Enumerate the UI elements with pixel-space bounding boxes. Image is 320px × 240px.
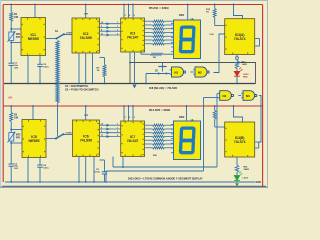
svg-text:S2 = PUSH-TO-ON SWITCH: S2 = PUSH-TO-ON SWITCH [65,88,99,92]
wire VR1 bottom to IC1 pin2-6 [10,41,12,43]
wire IC6 pin6 gnd [78,157,80,183]
wire IC6 pin7 gnd [85,157,87,183]
ground rail [5,181,256,183]
svg-text:16V: 16V [14,67,18,69]
capacitor C1 [9,62,14,64]
svg-text:NE555: NE555 [28,37,39,41]
svg-text:74LS74: 74LS74 [234,140,246,144]
resistor R1 [10,12,13,22]
svg-text:5: 5 [134,15,135,17]
wire VR1 node to IC1 pin7 [11,28,21,30]
wire LED1 to ground bus [236,76,238,83]
timer IC5 NE555 [22,120,46,158]
wire rail2 to IC5 pin8 [32,106,34,120]
wire IC2 pin6 gnd [78,53,80,84]
svg-text:7: 7 [117,22,118,24]
svg-text:N4: N4 [223,94,227,98]
resistor R3 [100,57,105,59]
flip-flop IC4B 74LS74 [225,122,255,157]
wire IC2 pin7 gnd [85,53,87,84]
wire IC1 pin1 to ground [27,56,29,84]
wire rail to R1 [10,5,12,13]
svg-text:GND: GND [256,182,261,184]
switch S3 digit [56,134,64,139]
counter IC6 74LS90 [73,120,100,157]
svg-text:RED: RED [243,76,248,78]
svg-text:N1: N1 [174,70,178,74]
resistor R23 [235,165,239,172]
BCD bus IC6 to IC7 [100,124,121,126]
wire C4 to ground rail [39,167,41,182]
wire R1 to VR1 [10,22,12,32]
gate N4 [220,91,232,101]
wire VR2 node to IC5 pin7 [11,129,22,131]
preset VR2 [9,133,14,142]
gate N2 [195,67,207,77]
counter IC2 74LS90 [72,18,100,53]
wire IC1 out to S1 [46,38,57,40]
svg-text:0.01u: 0.01u [43,67,49,69]
svg-text:47K: 47K [16,36,21,39]
wire node to C1 [10,43,12,64]
svg-text:N3: N3 [246,94,250,98]
decoder IC3 74LS47 [121,18,145,52]
wire rail to IC4A pin4 [234,5,243,19]
resistor R13 [236,59,238,62]
svg-text:LED2: LED2 [243,177,249,179]
resistor R14 [10,113,13,122]
svg-text:NE555: NE555 [29,139,40,143]
svg-text:5: 5 [134,117,135,119]
wires rail2 to IC7 pins 3-4-5 [123,106,125,121]
gate N3 [243,91,255,101]
op IC1 NE555 [21,18,46,56]
capacitor C5 [100,159,105,161]
svg-text:11: 11 [101,33,103,35]
wire IC6 pin10 gnd [93,157,95,183]
ground bus top-half [4,83,256,85]
wire node to C3 [10,143,12,164]
wire N4 to N3 [238,95,241,97]
wire IC3 pin8 to gate box [129,52,131,63]
wire N3 out down to IC4B [260,95,262,97]
reset bus upper [113,166,217,168]
wires rail to IC3 pins 3-4-5 [123,5,125,19]
svg-text:1: 1 [117,127,118,129]
wire VR2 to IC5 pin2-6 [10,141,12,143]
decoder IC7 74LS47 [121,121,145,157]
wire rail2 to DIS2 CA [186,106,188,121]
wire rail2 to IC6 pin5 [85,106,87,120]
gate N1 [172,67,184,77]
svg-text:R14-R20 = 330Ω: R14-R20 = 330Ω [149,108,171,112]
svg-text:CLK: CLK [210,34,215,36]
segment resistors R5-R11 [145,20,153,22]
wire S3 to IC6 pin14 [64,134,73,136]
wire rail to DIS1 CA [187,5,189,21]
box around gates IC8 [130,63,256,84]
svg-text:DIS1-DIS2 = LTS542 COMMON ANOD: DIS1-DIS2 = LTS542 COMMON ANODE 7-SEGMEN… [128,177,203,181]
svg-text:4: 4 [129,116,130,119]
svg-text:74LS90: 74LS90 [80,36,92,40]
svg-text:R5-R11 = 330Ω: R5-R11 = 330Ω [149,6,169,10]
wire IC5 pin5 to C4 [39,158,41,166]
+5V rail top (red) [3,4,262,6]
svg-text:2: 2 [117,131,118,133]
svg-text:74LS47: 74LS47 [127,139,139,143]
flip-flop IC4A 74LS74 [225,19,255,55]
svg-text:DIS2: DIS2 [179,116,185,119]
svg-text:220Ω: 220Ω [244,169,250,171]
svg-text:9: 9 [101,26,102,28]
DIS1 digit 8 [180,27,193,52]
wire R23 to LED2 [236,172,238,175]
+5V left rail (red) [2,5,4,183]
svg-text:10K: 10K [14,116,19,119]
svg-text:N2: N2 [198,70,202,74]
bottom frame line [2,185,266,187]
IC4A feedback loop [255,38,260,40]
wire rail2 to IC4B pin10 [234,106,243,122]
ground symbol GND [235,183,239,186]
svg-text:74LS74: 74LS74 [234,37,246,41]
switch S2 push-to-on [162,63,164,67]
svg-text:0.01u: 0.01u [95,172,101,174]
svg-text:0.01u: 0.01u [43,167,49,169]
svg-text:12: 12 [101,124,103,126]
wire LED2 to ground [236,181,238,183]
svg-text:74LS47: 74LS47 [127,35,139,39]
wire R13 to LED1 [236,69,238,72]
svg-text:11: 11 [101,135,103,137]
switch S1 [57,34,65,39]
wire C2 to ground bus [39,67,41,84]
wire N1 to N2 [190,71,193,73]
preset VR1 [9,32,14,41]
spring wire to S2 chain [56,41,59,104]
wire IC2 pin10 gnd [92,53,94,84]
svg-text:S1 = DIGITSWITCH: S1 = DIGITSWITCH [65,84,88,88]
svg-text:6: 6 [117,135,118,137]
svg-text:6: 6 [117,33,118,35]
svg-text:16V: 16V [14,168,18,170]
wire C1 to ground bus [10,65,12,83]
outer page border [1,1,268,188]
wire N4 input bus B [204,97,218,99]
+5V right rail (red) [262,5,264,187]
svg-text:7: 7 [117,124,118,126]
wire IC3 gnd arrow [134,52,136,84]
svg-text:IC8 (N1-N4) = 74LS00: IC8 (N1-N4) = 74LS00 [149,86,178,90]
svg-text:100Ω: 100Ω [242,64,248,66]
wire N4 input bus A [216,93,219,95]
wire IC5 pin1 gnd [27,158,29,183]
LED2 green [234,176,239,180]
svg-text:8: 8 [101,30,102,32]
wire IC4B pin9 down [236,157,238,165]
svg-text:3: 3 [125,15,126,17]
resistor R4 lamp-test [140,52,142,54]
wire R14 to VR2 [10,122,12,133]
wire rail to IC1 pin8 [34,5,36,18]
svg-text:12: 12 [101,22,103,24]
svg-text:10K: 10K [14,16,19,19]
wire S1 to IC2 pin14 [64,34,72,36]
wire IC5 out to S3 [46,138,56,140]
IC4B feedback loop [255,141,259,143]
svg-text:47K: 47K [16,136,21,139]
svg-text:1K: 1K [97,70,100,72]
LED1 red [234,72,239,76]
segment resistors R15-R21 [145,124,153,126]
wire N2 out to IC4A clock [214,34,225,73]
svg-text:9: 9 [101,127,102,129]
reset bus lower [106,170,204,172]
wire C3 to ground rail [10,166,12,182]
svg-text:+5V: +5V [8,96,13,100]
display DIS1 box [174,20,201,59]
svg-text:1: 1 [117,26,118,28]
svg-text:4: 4 [129,14,130,17]
capacitor C4 [37,164,42,166]
capacitor C3 [9,163,14,165]
svg-text:DIS1: DIS1 [179,14,185,17]
DIS2 digit 8 [180,128,193,153]
svg-text:74LS90: 74LS90 [80,139,92,143]
resistor R12 [214,5,216,9]
+5V rail middle (red) [3,105,262,107]
wire IC4A pin5 to node [236,55,238,58]
capacitor C2 [37,63,42,65]
svg-text:1K: 1K [206,12,209,14]
wire rail to IC2 pin5 [85,5,87,19]
wire IC1 pin5 to C2 [39,56,41,65]
resistor R22 [214,106,216,111]
wire rail2 to R14 [10,106,12,113]
svg-text:2: 2 [117,30,118,32]
wire S2 to N1 [146,73,170,75]
svg-text:3: 3 [125,117,126,119]
svg-text:8: 8 [101,131,102,133]
display DIS2 box [174,121,201,160]
BCD bus IC2 to IC3 [100,23,121,25]
